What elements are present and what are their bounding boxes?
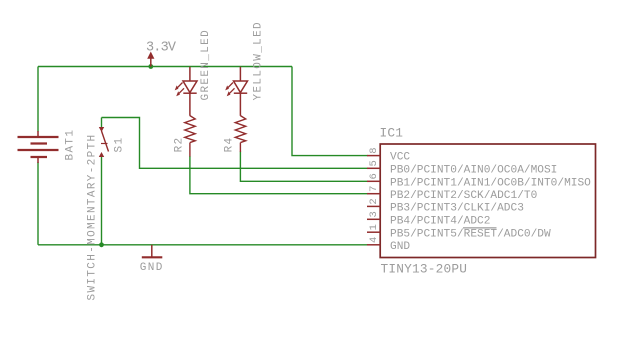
- svg-text:TINY13-20PU: TINY13-20PU: [381, 262, 468, 277]
- pin stub 7 PB2: [367, 193, 381, 195]
- svg-text:PB0/PCINT0/AIN0/OC0A/MOSI: PB0/PCINT0/AIN0/OC0A/MOSI: [390, 164, 557, 176]
- svg-text:S1: S1: [114, 137, 126, 153]
- wire left vertical battery top: [37, 67, 39, 132]
- svg-text:GND: GND: [390, 241, 410, 253]
- resistor R4: [235, 116, 245, 152]
- junction dot 3.3V tap: [148, 64, 153, 69]
- wire bottom GND net horizontal: [38, 244, 368, 246]
- wire battery bottom vertical: [37, 162, 39, 245]
- LED GREEN_LED: [175, 67, 197, 116]
- svg-text:PB1/PCINT1/AIN1/OC0B/INT0/MISO: PB1/PCINT1/AIN1/OC0B/INT0/MISO: [390, 177, 591, 189]
- switch S1: [99, 127, 109, 157]
- svg-text:6: 6: [368, 173, 380, 179]
- pin stub 3 PB4: [367, 218, 381, 220]
- svg-text:GND: GND: [140, 262, 164, 274]
- svg-text:SWITCH-MOMENTARY-2PTH: SWITCH-MOMENTARY-2PTH: [87, 134, 99, 301]
- svg-text:GREEN_LED: GREEN_LED: [200, 29, 212, 101]
- wire switch bottom pin to bottom net: [101, 157, 103, 245]
- svg-text:BAT1: BAT1: [65, 129, 77, 161]
- pin stub 8 VCC: [367, 155, 381, 157]
- LED YELLOW_LED: [225, 67, 247, 116]
- wire R2 bottom to PB2 net: [190, 156, 368, 194]
- svg-text:R4: R4: [224, 136, 236, 152]
- svg-text:4: 4: [368, 237, 380, 243]
- pin stub 6 PB1: [367, 180, 381, 182]
- svg-text:2: 2: [368, 198, 380, 204]
- overline RESET: [463, 227, 497, 229]
- pin stub 5 PB0: [367, 167, 381, 169]
- wire top horizontal net 3.3V: [38, 66, 292, 68]
- svg-text:8: 8: [368, 147, 380, 153]
- resistor R2: [185, 116, 195, 157]
- svg-text:YELLOW_LED: YELLOW_LED: [253, 21, 265, 101]
- svg-text:PB3/PCINT3/CLKI/ADC3: PB3/PCINT3/CLKI/ADC3: [390, 203, 524, 215]
- svg-text:7: 7: [368, 186, 380, 192]
- svg-text:PB5/PCINT5/RESET/ADC0/DW: PB5/PCINT5/RESET/ADC0/DW: [390, 228, 551, 240]
- svg-text:PB4/PCINT4/ADC2: PB4/PCINT4/ADC2: [390, 215, 490, 227]
- wire switch to PB0 net: [102, 118, 368, 169]
- svg-text:IC1: IC1: [380, 126, 404, 141]
- battery BAT1: [18, 131, 59, 163]
- svg-text:R2: R2: [174, 136, 186, 152]
- IC IC1 box: [380, 144, 595, 258]
- junction dot switch bottom: [99, 242, 104, 247]
- svg-text:PB2/PCINT2/SCK/ADC1/T0: PB2/PCINT2/SCK/ADC1/T0: [390, 190, 538, 202]
- pin stub 2 PB3: [367, 205, 381, 207]
- svg-text:1: 1: [368, 224, 380, 230]
- svg-text:3: 3: [368, 211, 380, 217]
- ground GND symbol: [142, 245, 163, 257]
- svg-text:5: 5: [368, 160, 380, 166]
- svg-text:VCC: VCC: [390, 152, 410, 164]
- svg-text:3.3V: 3.3V: [146, 41, 177, 56]
- pin stub 4 GND: [367, 244, 381, 246]
- wire switch top pin: [101, 118, 103, 128]
- wire R4 bottom to PB1 net: [240, 152, 367, 182]
- wire VCC net right vertical: [292, 67, 368, 156]
- supply symbol 3.3V arrow: [147, 52, 154, 67]
- pin stub 1 PB5: [367, 231, 381, 233]
